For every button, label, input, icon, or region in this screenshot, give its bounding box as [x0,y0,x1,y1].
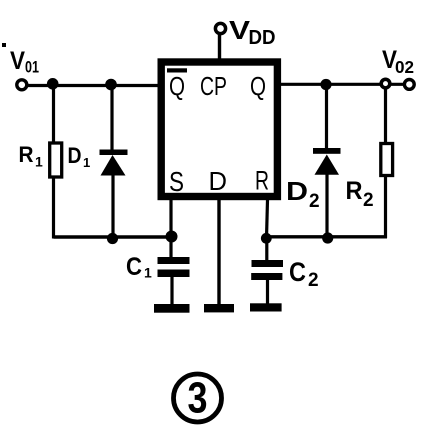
label C1 [126,253,152,281]
wire Q to V02 [281,83,404,86]
svg-text:1: 1 [144,265,152,281]
terminal V01 [17,80,27,90]
wire C2 to ground [266,279,269,305]
node VDD label [229,15,276,49]
svg-text:V: V [10,47,25,75]
svg-text:D: D [209,166,228,196]
svg-text:R: R [19,142,34,167]
svg-text:D: D [68,143,82,168]
terminal V02 [404,80,414,90]
junction R1 tap [47,78,59,90]
svg-text:DD: DD [249,27,276,49]
wire C2 top lead [265,238,268,262]
diode D2 [313,148,341,175]
pin label Qbar [167,68,187,101]
wire R1 top lead [52,85,55,144]
svg-text:01: 01 [25,58,39,77]
wire D1 top lead [110,85,113,151]
label R1 [19,142,44,170]
ground D [204,304,234,312]
ground C1 [154,304,190,313]
capacitor C2 [251,260,283,280]
svg-text:C: C [126,253,142,281]
resistor R1 [50,143,62,177]
wire R1 bottom lead [52,177,55,239]
wire C1 to ground [170,276,173,306]
wire V01 to Qbar pin [27,84,160,87]
node V01 label [10,47,39,77]
svg-text:2: 2 [363,190,374,211]
wire R pin lead [267,200,268,238]
capacitor C1 [158,257,190,277]
svg-text:02: 02 [395,57,414,77]
stray ink speck [2,43,6,47]
ground C2 [250,303,282,311]
svg-text:2: 2 [308,270,319,291]
wire D pin lead [217,200,220,306]
svg-text:Q: Q [250,71,266,101]
svg-text:R: R [346,177,363,205]
svg-text:D: D [286,176,308,206]
junction S/rail [166,231,178,243]
wire D2 bottom lead [325,173,328,238]
figure number 3 [174,374,222,423]
wire D1 bottom lead [111,174,114,239]
wire VDD lead [218,34,221,62]
terminal VDD [215,23,225,33]
svg-text:CP: CP [200,71,227,101]
svg-text:2: 2 [309,191,320,212]
junction D1 tap [105,79,117,91]
svg-text:S: S [169,166,184,197]
junction R pin/C2 [261,233,272,244]
label D2 [286,176,320,212]
svg-text:R: R [255,166,269,196]
node V02 label [382,46,414,77]
wire bottom-right rail [266,235,387,238]
label D1 [68,143,91,170]
wire R2 bottom lead [384,176,387,238]
svg-text:1: 1 [83,155,90,170]
resistor R2 [381,144,393,176]
svg-text:C: C [289,257,306,287]
wire D2 top lead [325,84,328,150]
wire S pin lead [169,200,172,259]
wire R2 top lead [384,88,387,144]
junction D2 tap [320,79,331,90]
diode D1 [100,150,128,176]
svg-text:3: 3 [188,374,208,423]
svg-text:Q: Q [169,71,185,101]
junction D2/rail [322,232,333,243]
wire bottom-left rail [54,235,173,238]
junction R2 tap [381,79,390,88]
junction D1/rail [107,233,118,244]
label C2 [289,257,319,291]
label R2 [346,177,374,211]
svg-text:1: 1 [35,154,43,170]
flip-flop U1 [161,62,277,197]
